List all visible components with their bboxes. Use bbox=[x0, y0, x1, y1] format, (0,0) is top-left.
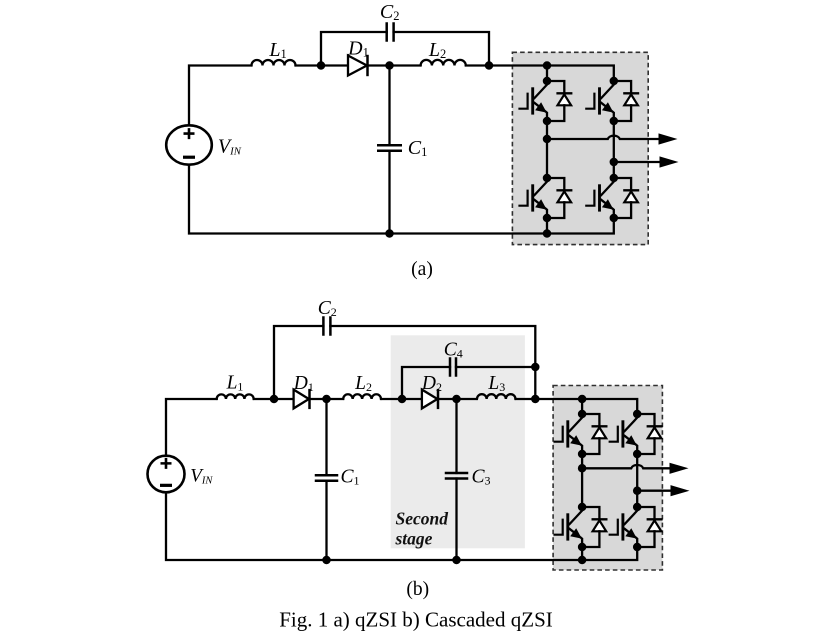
node bottom rail left leg (b) bbox=[578, 556, 587, 565]
svg-text:(a): (a) bbox=[411, 259, 433, 280]
IGBT Q3 with antiparallel diode bbox=[518, 174, 572, 223]
wire L2 to D2 (b) bbox=[381, 398, 422, 400]
node L2/C2 junction (a) bbox=[485, 61, 494, 70]
inductor L2 (b) bbox=[343, 394, 381, 399]
inductor L1 (a) bbox=[252, 60, 296, 66]
capacitor C4 bbox=[450, 357, 456, 377]
output wire with arrow (phase A (a)) bbox=[547, 133, 678, 144]
node phase A output (a) bbox=[543, 135, 552, 144]
wire C2 right branch (a) bbox=[394, 32, 489, 66]
capacitor C1 (a) bbox=[377, 145, 402, 151]
IGBT Q7 with antiparallel diode bbox=[554, 503, 608, 552]
bottom rail wire (b) bbox=[166, 492, 637, 560]
diode D1 (b) bbox=[294, 389, 310, 409]
wire bridge right leg middle (a) bbox=[613, 121, 615, 178]
node C3 bottom (b) bbox=[452, 556, 461, 565]
wire L1 to D1 (b) bbox=[254, 398, 294, 400]
wire C4 right branch bbox=[456, 366, 535, 368]
node phase A output (b) bbox=[578, 464, 587, 473]
inverter bridge enclosure (b) bbox=[553, 386, 662, 571]
wire bridge left leg bottom (b) bbox=[581, 547, 583, 560]
node phase B output (b) bbox=[633, 486, 642, 495]
node C1 bottom (b) bbox=[322, 556, 331, 565]
node L2/D2/C4 junction (b) bbox=[398, 395, 407, 404]
inductor L3 (b) bbox=[477, 394, 515, 399]
wire bridge left leg middle (b) bbox=[581, 454, 583, 507]
wire node to C3 bbox=[455, 399, 457, 473]
capacitor C1 (b) bbox=[315, 475, 339, 481]
wire VIN+ to L1 bbox=[189, 66, 252, 126]
output wire with arrow (phase A (b)) bbox=[582, 463, 688, 474]
output wire with arrow (phase B (a)) bbox=[614, 156, 679, 167]
wire bridge left leg middle (a) bbox=[546, 121, 548, 178]
wire C3 to bottom rail (b) bbox=[455, 479, 457, 561]
wire bridge left leg bottom (a) bbox=[546, 218, 548, 234]
svg-text:Second: Second bbox=[396, 508, 449, 528]
node bottom rail left leg (a) bbox=[543, 229, 552, 238]
IGBT Q6 with antiparallel diode bbox=[609, 410, 663, 459]
bottom rail wire (a) bbox=[189, 165, 614, 234]
svg-text:stage: stage bbox=[395, 529, 433, 549]
output wire with arrow (phase B (b)) bbox=[637, 485, 689, 496]
svg-text:(b): (b) bbox=[406, 579, 429, 600]
node D1/C1 junction (b) bbox=[322, 395, 331, 404]
wire D1 to L2 bbox=[368, 64, 421, 66]
wire bridge left leg top (b) bbox=[581, 399, 583, 414]
node phase B output (a) bbox=[610, 158, 619, 167]
wire C2 right branch (b) bbox=[330, 326, 535, 399]
inverter bridge enclosure (a) bbox=[512, 52, 648, 244]
node D2/C3 junction (b) bbox=[452, 395, 461, 404]
second stage highlight box bbox=[391, 335, 525, 548]
capacitor C3 bbox=[445, 473, 469, 479]
wire C2 left branch (b) bbox=[274, 326, 323, 399]
IGBT Q1 with antiparallel diode bbox=[518, 77, 572, 126]
wire VIN+ to L1 (b) bbox=[166, 399, 217, 456]
source VIN (a) bbox=[166, 125, 212, 164]
wire L2 to bridge top rail bbox=[466, 66, 614, 82]
wire node to C1 (b) bbox=[325, 399, 327, 475]
wire bridge left leg top (a) bbox=[546, 66, 548, 82]
svg-text:Fig. 1 a) qZSI b) Cascaded qZS: Fig. 1 a) qZSI b) Cascaded qZSI bbox=[279, 608, 553, 632]
node L1/D1/C2 junction (b) bbox=[270, 395, 279, 404]
IGBT Q8 with antiparallel diode bbox=[609, 503, 663, 552]
IGBT Q5 with antiparallel diode bbox=[554, 410, 608, 459]
wire C4 left branch bbox=[402, 367, 450, 399]
wire L3 to bridge top rail (b) bbox=[516, 399, 638, 414]
node D1/C1 junction (a) bbox=[385, 61, 394, 70]
node C1 bottom (a) bbox=[385, 229, 394, 238]
wire D1 to L2 (b) bbox=[310, 398, 344, 400]
inductor L2 (a) bbox=[421, 60, 466, 66]
node L1/D1/C2 junction (a) bbox=[317, 61, 326, 70]
capacitor C2 (b) bbox=[323, 316, 330, 336]
diode D2 (b) bbox=[422, 389, 438, 409]
wire D2 to L3 (b) bbox=[438, 398, 477, 400]
wire L1 to D1 bbox=[296, 64, 349, 66]
node L3/C2 junction (b) bbox=[531, 395, 540, 404]
capacitor C2 (a) bbox=[387, 22, 394, 42]
wire C1 to bottom rail (b) bbox=[325, 481, 327, 560]
wire C1 to bottom rail (a) bbox=[388, 151, 390, 234]
wire bridge right leg middle (b) bbox=[636, 454, 638, 507]
node C4/C2 junction bbox=[531, 363, 540, 372]
IGBT Q2 with antiparallel diode bbox=[585, 77, 639, 126]
wire node to C1 (a) bbox=[388, 66, 390, 146]
source VIN (b) bbox=[148, 456, 185, 493]
node top rail left leg (b) bbox=[578, 395, 587, 404]
IGBT Q4 with antiparallel diode bbox=[585, 174, 639, 223]
diode D1 (a) bbox=[348, 55, 368, 76]
node top rail left leg (a) bbox=[543, 61, 552, 70]
inductor L1 (b) bbox=[217, 394, 254, 399]
wire C2 left branch (a) bbox=[321, 32, 387, 66]
